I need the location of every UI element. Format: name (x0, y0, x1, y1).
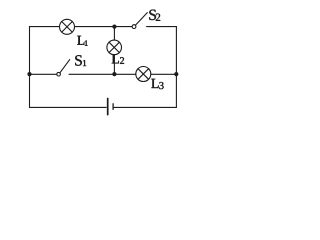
wire L2 down to node B (113, 55, 115, 75)
wire node A down to L2 (113, 27, 115, 40)
wire top-left segment (30, 26, 60, 28)
lamp L1 (60, 19, 75, 34)
wire L1 to node A (75, 26, 133, 28)
wire left edge (29, 27, 31, 108)
node A junction dot (112, 25, 116, 29)
switch S2 (132, 13, 147, 29)
switch S1 (57, 60, 70, 76)
node B junction dot (112, 72, 116, 76)
label S1 (75, 55, 86, 66)
lamp L2 (107, 40, 122, 55)
node right junction dot (174, 72, 178, 76)
wire L3 to right edge (151, 73, 177, 75)
wire middle-left segment (30, 73, 57, 75)
label S2 (149, 10, 160, 21)
battery B1 (108, 99, 113, 115)
label L3 (151, 79, 163, 89)
wire S1 to node B (69, 73, 136, 75)
wire bottom-right segment (114, 106, 177, 108)
label L2 (112, 54, 124, 63)
label L1 (77, 36, 87, 46)
wire right edge (175, 27, 177, 108)
lamp L3 (136, 67, 151, 82)
wire S2 to right edge (147, 26, 177, 28)
node left junction dot (27, 72, 31, 76)
wire bottom-left segment (30, 106, 107, 108)
